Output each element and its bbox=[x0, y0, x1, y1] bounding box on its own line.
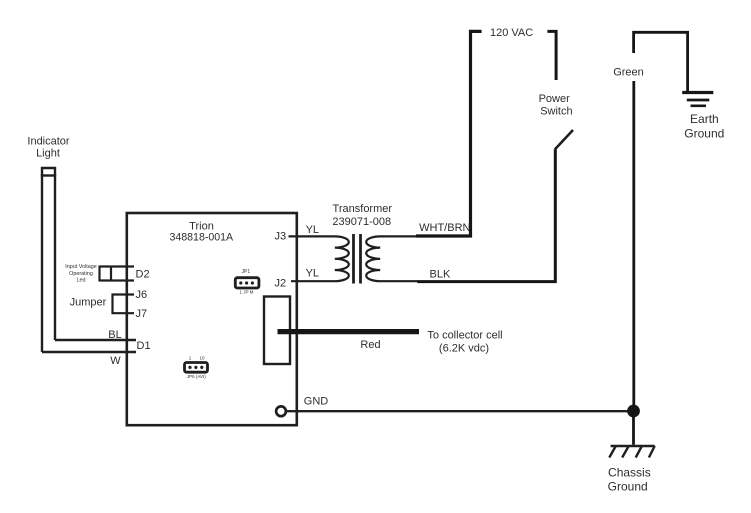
svg-text:Trion: Trion bbox=[189, 221, 214, 233]
label Power Switch bbox=[539, 93, 573, 117]
chassis ground symbol bbox=[609, 446, 654, 458]
wire junction to chassis ground bbox=[632, 411, 635, 445]
transformer T1 primary coil (with wire from J3 and J2) bbox=[289, 236, 349, 281]
svg-text:Operating: Operating bbox=[69, 271, 93, 277]
svg-text:To collector cell: To collector cell bbox=[427, 330, 502, 342]
svg-text:348818-001A: 348818-001A bbox=[169, 232, 234, 244]
collector output block bbox=[264, 297, 290, 365]
svg-text:J3: J3 bbox=[275, 230, 287, 242]
label Earth Ground bbox=[684, 112, 724, 140]
wire BL (from light right side to D1) bbox=[55, 339, 136, 341]
wire Red (thick, to collector cell) bbox=[278, 329, 420, 334]
svg-text:WHT/BRN: WHT/BRN bbox=[419, 222, 470, 234]
svg-text:10: 10 bbox=[199, 356, 205, 361]
wire WHT/BRN thick run and 120 VAC left leg bbox=[416, 31, 482, 236]
svg-text:Transformer: Transformer bbox=[333, 203, 393, 215]
svg-text:Switch: Switch bbox=[540, 106, 572, 118]
indicator light LP1 body bbox=[41, 168, 56, 352]
svg-text:Ground: Ground bbox=[684, 126, 724, 140]
label Chassis Ground bbox=[608, 465, 651, 493]
svg-text:YL: YL bbox=[306, 268, 319, 280]
svg-text:Earth: Earth bbox=[690, 112, 719, 126]
transformer T1 secondary coil bbox=[366, 236, 418, 281]
svg-text:Input Voltage: Input Voltage bbox=[65, 264, 96, 270]
svg-text:Light: Light bbox=[36, 147, 60, 159]
svg-text:Led: Led bbox=[77, 278, 86, 284]
svg-text:Chassis: Chassis bbox=[608, 465, 651, 479]
power switch SW1 blade bbox=[555, 130, 573, 149]
svg-text:Ground: Ground bbox=[608, 480, 648, 494]
svg-text:Indicator: Indicator bbox=[27, 135, 70, 147]
120 VAC right bracket and switch upper contact bbox=[547, 31, 556, 80]
svg-text:J6: J6 bbox=[136, 289, 148, 301]
svg-text:D2: D2 bbox=[136, 268, 150, 280]
svg-text:Power: Power bbox=[539, 93, 571, 105]
connector D2 bbox=[100, 266, 135, 282]
svg-text:239071-008: 239071-008 bbox=[332, 216, 391, 228]
svg-text:W: W bbox=[110, 355, 121, 367]
transformer T1 core bbox=[354, 234, 361, 284]
GND terminal circle bbox=[276, 406, 286, 416]
wire Green lower run bbox=[632, 81, 635, 406]
wire BLK (switch to transformer, thick) bbox=[417, 149, 555, 281]
svg-text:YL: YL bbox=[306, 224, 319, 236]
svg-text:120 VAC: 120 VAC bbox=[490, 27, 533, 39]
svg-text:BL: BL bbox=[108, 329, 121, 341]
svg-text:BLK: BLK bbox=[430, 269, 451, 281]
svg-text:J2: J2 bbox=[275, 278, 287, 290]
wire Green top run bbox=[634, 32, 688, 91]
header JP6 (AVI) bbox=[185, 356, 208, 380]
label Input Voltage Operating Led (small) bbox=[65, 264, 96, 284]
svg-text:JP1: JP1 bbox=[241, 269, 250, 275]
svg-text:(6.2K vdc): (6.2K vdc) bbox=[439, 343, 489, 355]
header JP1 bbox=[235, 269, 259, 295]
board U1 Trion 348818-001A outline bbox=[127, 213, 297, 425]
earth ground symbol bbox=[682, 93, 713, 106]
wire GND to chassis junction bbox=[287, 410, 629, 412]
jumper bracket J6-J7 bbox=[113, 295, 135, 314]
svg-text:D1: D1 bbox=[137, 340, 151, 352]
svg-text:Jumper: Jumper bbox=[70, 297, 107, 309]
label Indicator Light bbox=[27, 135, 70, 159]
svg-text:Red: Red bbox=[360, 339, 380, 351]
svg-text:J7: J7 bbox=[136, 308, 148, 320]
svg-text:GND: GND bbox=[304, 395, 329, 407]
svg-text:Green: Green bbox=[613, 66, 644, 78]
svg-text:JP6 (AVI): JP6 (AVI) bbox=[187, 374, 206, 379]
svg-text:1 JP M: 1 JP M bbox=[239, 290, 253, 295]
wire W (from light left side to D1) bbox=[42, 351, 136, 353]
junction dot node bbox=[627, 405, 640, 418]
